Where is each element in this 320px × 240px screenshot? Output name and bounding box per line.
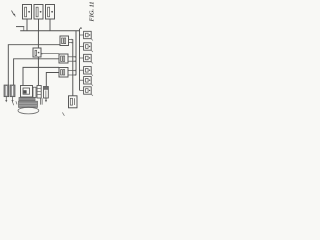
svg-text:FIG. 11: FIG. 11 (88, 2, 95, 22)
